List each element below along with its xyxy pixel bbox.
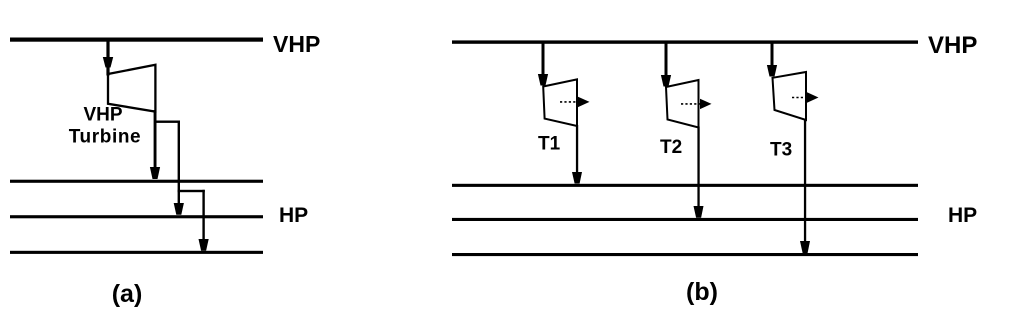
HP header line (a) bbox=[10, 215, 263, 218]
wire: turbine exhaust down to first header (a) bbox=[154, 110, 157, 167]
arrowhead to third header (a) bbox=[199, 239, 209, 251]
intermediate header line 1 (b) bbox=[452, 184, 918, 187]
extraction arrow T1 bbox=[560, 97, 590, 107]
svg-text:Turbine: Turbine bbox=[69, 127, 141, 148]
turbine T2 body bbox=[666, 80, 699, 128]
wire: horizontal step 2 (a) bbox=[178, 190, 205, 192]
wire: inlet drop T2 bbox=[665, 42, 668, 77]
arrowhead to HP header (a) bbox=[174, 203, 184, 215]
wire: vertical drop to HP header (a) bbox=[178, 121, 180, 204]
extraction arrow T2 bbox=[681, 99, 712, 109]
VHP header line (a) bbox=[10, 38, 263, 42]
header line 3 (b) bbox=[452, 253, 918, 256]
svg-text:VHP: VHP bbox=[83, 105, 122, 126]
svg-text:(a): (a) bbox=[112, 280, 143, 308]
turbine T3 body bbox=[773, 72, 807, 120]
arrowhead inlet T1 bbox=[538, 74, 548, 86]
arrowhead inlet (a) bbox=[103, 57, 113, 68]
wire: inlet drop T1 bbox=[542, 42, 545, 76]
arrowhead exhaust 1 (a) bbox=[150, 167, 160, 179]
svg-text:VHP: VHP bbox=[273, 31, 320, 57]
arrowhead exhaust T1 bbox=[572, 172, 582, 184]
HP header line (b) bbox=[452, 218, 918, 221]
svg-text:T1: T1 bbox=[538, 134, 561, 155]
svg-text:(b): (b) bbox=[686, 278, 718, 306]
wire: exhaust T1 to header line 1 (b) bbox=[576, 125, 578, 174]
svg-text:T2: T2 bbox=[660, 137, 682, 158]
turbine T1 body bbox=[543, 79, 577, 126]
wire: exhaust T3 to header line 3 (b) bbox=[804, 119, 806, 243]
svg-text:HP: HP bbox=[279, 204, 308, 227]
svg-text:HP: HP bbox=[948, 204, 977, 227]
svg-text:T3: T3 bbox=[770, 140, 792, 161]
wire: exhaust T2 to HP header (b) bbox=[697, 127, 699, 209]
wire: turbine inlet drop (a) bbox=[106, 40, 109, 76]
header line 3 (a) bbox=[10, 251, 263, 254]
arrowhead inlet T3 bbox=[767, 65, 777, 77]
turbine VHP Turbine body bbox=[108, 65, 155, 112]
extraction arrow T3 bbox=[792, 92, 819, 102]
wire: vertical drop to third header (a) bbox=[202, 190, 204, 240]
wire: inlet drop T3 bbox=[771, 42, 774, 67]
arrowhead exhaust T2 bbox=[694, 206, 704, 218]
arrowhead exhaust T3 bbox=[800, 241, 810, 253]
wire: horizontal step 1 (a) bbox=[154, 121, 180, 123]
svg-text:VHP: VHP bbox=[928, 32, 977, 59]
intermediate header line 1 (a) bbox=[10, 180, 263, 183]
arrowhead inlet T2 bbox=[661, 75, 671, 87]
VHP header line (b) bbox=[452, 40, 918, 43]
